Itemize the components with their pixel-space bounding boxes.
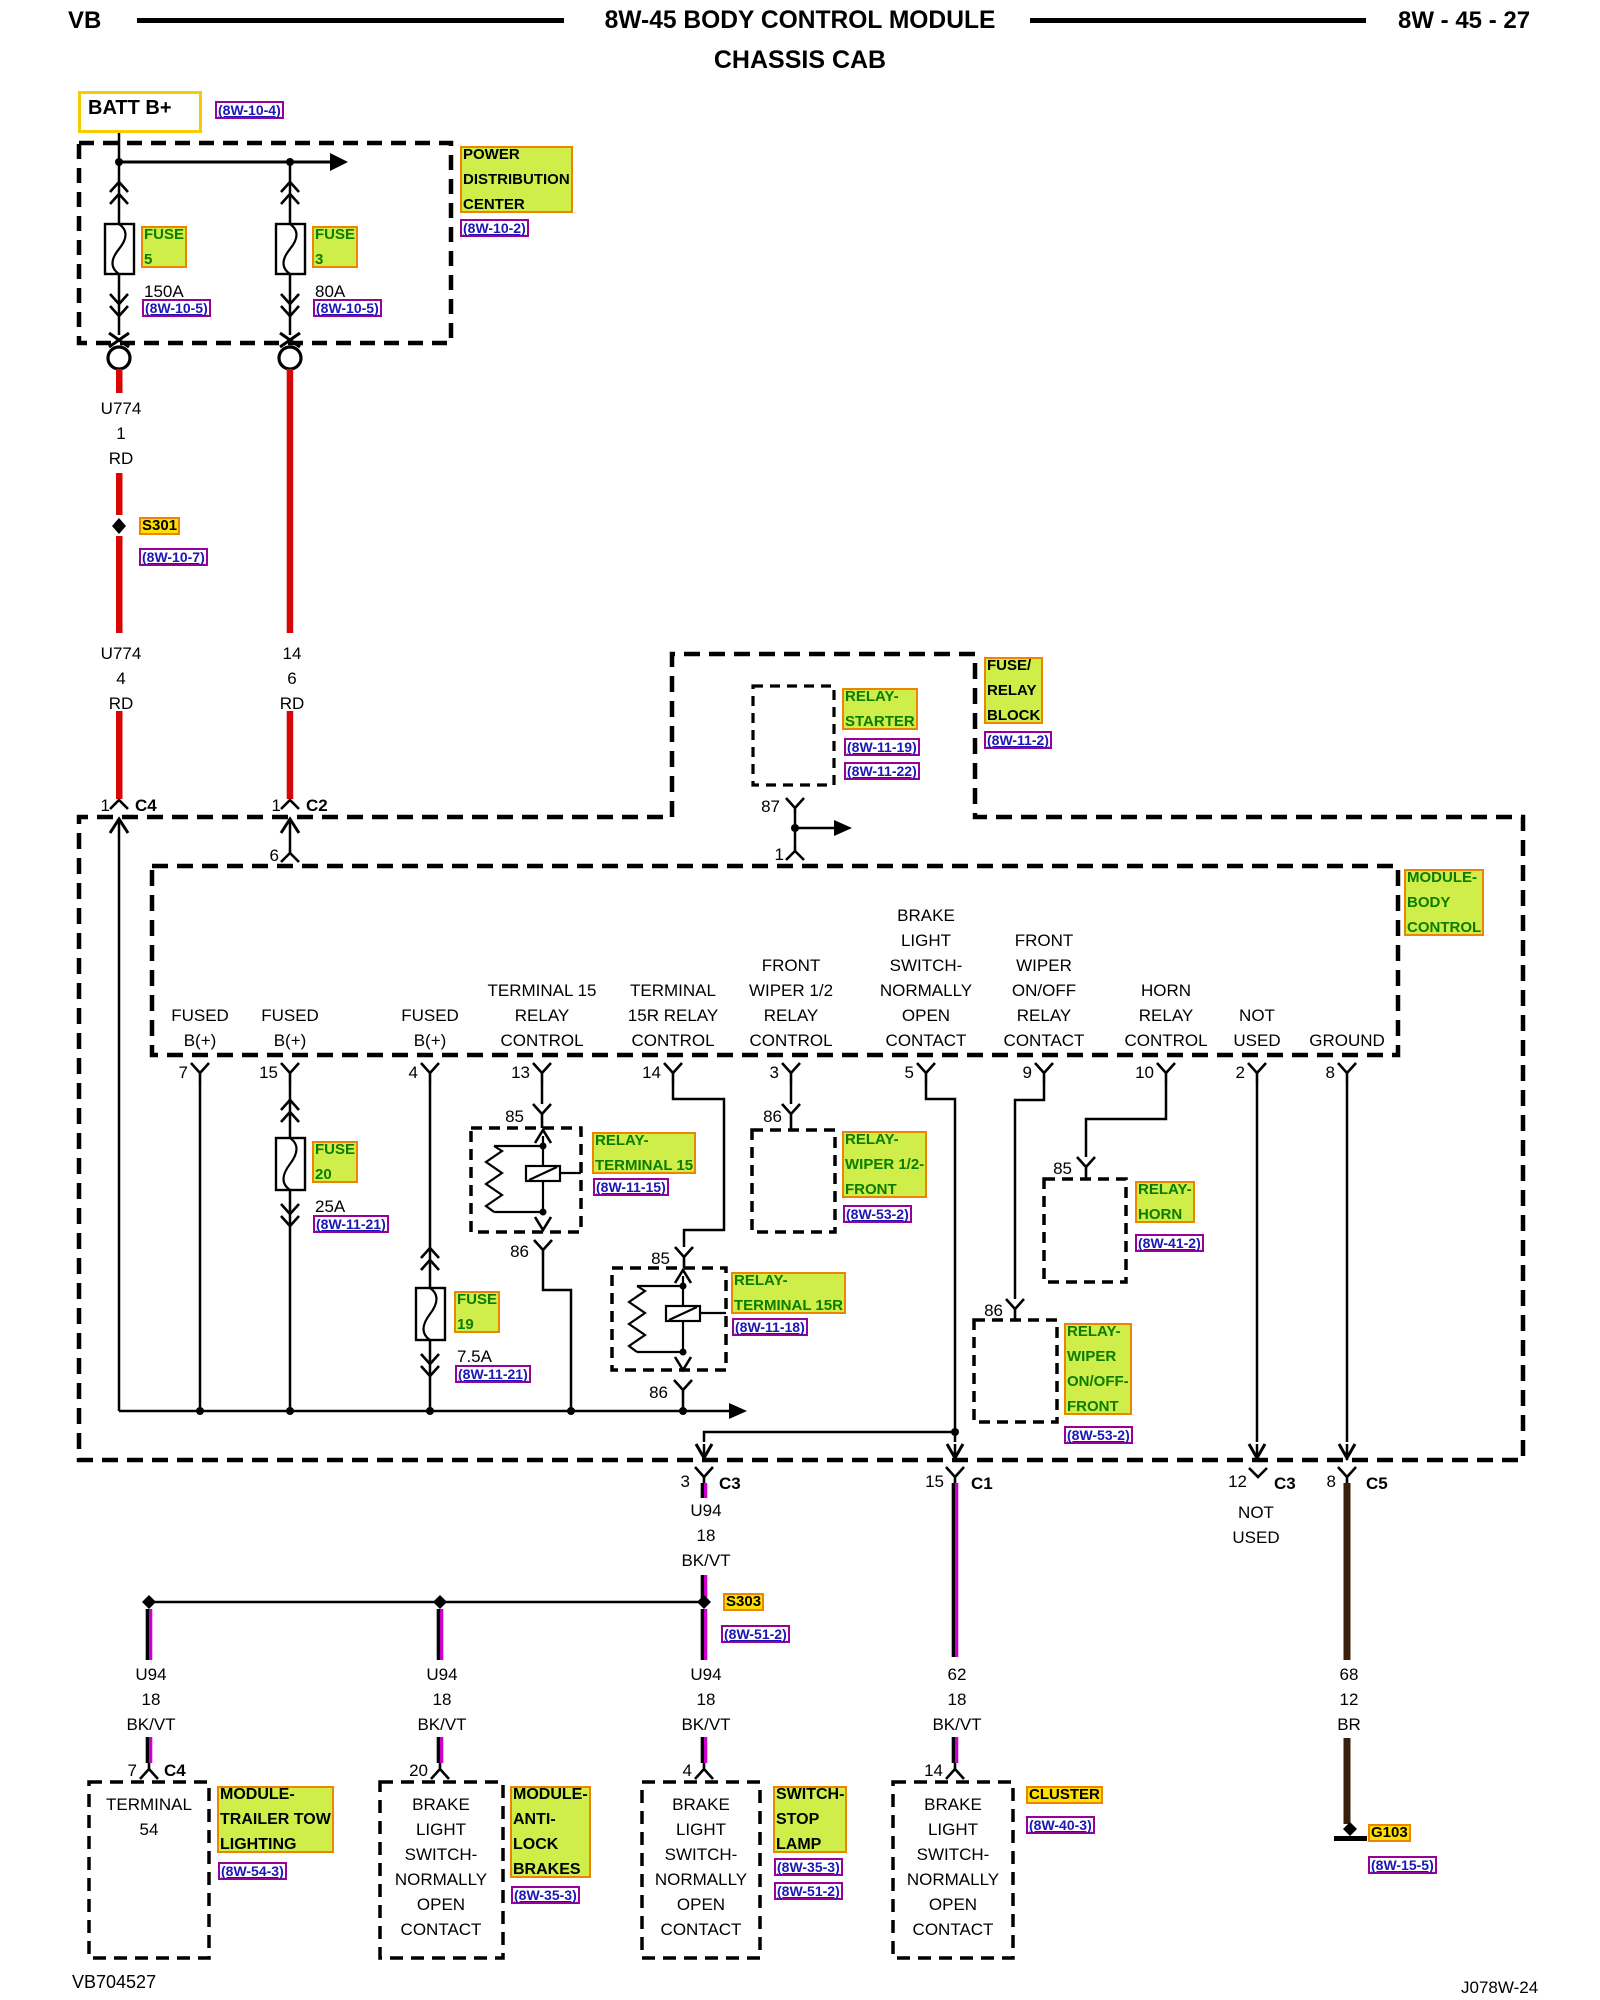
wire C4 down arrow [110, 819, 128, 1411]
pin 1 label starter [775, 846, 784, 863]
link 8W-11-21 fuse19 [455, 1365, 531, 1383]
wire U94 drop mid upper [437, 1609, 444, 1660]
link 8W-15-5 [1368, 1856, 1437, 1874]
pin 7 fork [191, 1063, 209, 1085]
connector chevrons above fuse 5 [110, 182, 128, 204]
connector chevrons below fuse 5 [110, 294, 128, 316]
wire U774 1 RD segment b [116, 473, 123, 515]
column header fused b+ 3 [401, 1003, 459, 1053]
label G103 [1368, 1824, 1411, 1842]
wire U94 drop right upper [701, 1609, 708, 1660]
column header fused b+ 2 [261, 1003, 319, 1053]
pin 87 label [761, 798, 780, 815]
link 8W-54-3 [218, 1862, 287, 1880]
pin number 7 [179, 1064, 188, 1081]
label module-trailer tow lighting [217, 1786, 334, 1853]
connector chevrons above fuse 20 [281, 1100, 299, 1122]
label module-body control [1404, 869, 1484, 936]
fuse 19 rating [457, 1348, 492, 1365]
label power distribution center [460, 146, 573, 213]
link 8W-11-18 [732, 1318, 808, 1336]
connector C1 fork [946, 1467, 964, 1483]
relay T15R 85 label [651, 1250, 670, 1267]
wire label 62 18 BKVT [948, 1666, 967, 1683]
label relay-terminal 15 [592, 1132, 696, 1174]
relay T15R junction dots [680, 1283, 687, 1356]
connector C2 pin 1 fork [281, 800, 299, 809]
splice diamond left [142, 1595, 156, 1609]
wire U774 4 RD segment a [116, 536, 123, 633]
relay T15 86 label [510, 1243, 529, 1260]
wire U774 4 RD segment b [116, 711, 123, 799]
wire relay T15R 86 to bus [682, 1395, 685, 1411]
label cluster [1026, 1786, 1103, 1804]
connector chevrons below fuse 3 [281, 294, 299, 316]
bus junction dots [196, 1407, 687, 1415]
link 8W-11-21 fuse20 [313, 1215, 389, 1233]
node junction at fuse5 feed [115, 158, 123, 166]
pin 13 fork [533, 1063, 551, 1085]
pin 14 label bottom [924, 1762, 943, 1779]
pin number 4 [409, 1064, 418, 1081]
pin 6 label [270, 847, 279, 864]
brake light switch text 3 [907, 1792, 999, 1942]
pin 4 fork bottom [695, 1763, 713, 1779]
brake light switch ABS dashed box [380, 1782, 503, 1958]
label relay-wiper on/off-front [1064, 1323, 1132, 1415]
splice S303 rail [149, 1601, 704, 1604]
link 8W-35-3 abs [511, 1886, 580, 1904]
header title [605, 12, 996, 29]
wire U94 drop left lower [146, 1737, 153, 1763]
link 8W-41-2 [1135, 1234, 1204, 1252]
connector C2 label top [272, 797, 281, 814]
wire U94 C3 to splice [701, 1575, 708, 1602]
header subtitle [714, 52, 886, 69]
relay T15 85 label [505, 1108, 524, 1125]
column header front wiper 1/2 relay control [749, 953, 833, 1053]
connector chevrons above fuse 19 [421, 1248, 439, 1270]
wire label U774 4 RD [101, 645, 142, 662]
label fuse/relay block [984, 657, 1043, 724]
pin number 14 [642, 1064, 661, 1081]
link 8W-11-2 [984, 731, 1052, 749]
connector C3 not used label [1228, 1473, 1247, 1490]
wire label U94 18 BKVT below C3 [690, 1502, 721, 1519]
wire pin14 to relay T15R [673, 1085, 724, 1247]
eyelet circle left [108, 347, 130, 369]
wire C2 down arrow [281, 819, 299, 848]
wire U94 drop right lower [701, 1737, 708, 1763]
link 8W-10-2 [460, 219, 529, 237]
link 8W-53-2 onoff [1064, 1426, 1133, 1444]
header VB [68, 12, 101, 29]
label S303 [723, 1593, 764, 1611]
wire PDC feed horizontal with arrow [119, 153, 348, 171]
PDC exit terminal X right [280, 333, 300, 347]
node starter junction [791, 824, 799, 832]
wire below fuse19 to bus [429, 1340, 432, 1411]
label fuse 19 [454, 1291, 500, 1333]
wire pin4 to fuse19 [429, 1085, 432, 1288]
label fuse 20 [312, 1141, 358, 1183]
connector C4 label top [101, 797, 110, 814]
pin number 2 [1236, 1064, 1245, 1081]
connector C5 label [1327, 1473, 1336, 1490]
fuse 3 rating 80A [315, 283, 345, 300]
relay wiper12 pin 86 fork [782, 1104, 800, 1130]
link 8W-35-3 stop [774, 1858, 843, 1876]
label relay-terminal 15r [731, 1272, 846, 1314]
relay T15 junction dots [540, 1143, 547, 1216]
wire 14 6 RD segment b [287, 711, 294, 799]
power distribution center dashed box [79, 143, 451, 343]
wire pin15 to fuse20 [289, 1085, 292, 1138]
label module-anti-lock brakes [510, 1786, 591, 1878]
column header terminal 15r relay control [628, 978, 718, 1053]
wire pin3 down [790, 1085, 793, 1104]
pin 20 fork bottom [431, 1763, 449, 1779]
header page number [1398, 12, 1530, 29]
wire 62 lower segment [952, 1737, 959, 1763]
relay T15 coil circuit [486, 1130, 581, 1230]
link 8W-40-3 [1026, 1816, 1095, 1834]
connector chevrons above fuse 3 [281, 182, 299, 204]
wire pin5 to C1 [926, 1085, 963, 1460]
relay-wiper on/off front dashed box [974, 1320, 1057, 1422]
label switch-stop lamp [773, 1786, 847, 1853]
link 8W-11-15 [593, 1178, 669, 1196]
label relay-wiper 1/2-front [842, 1131, 927, 1198]
wire 14 6 RD segment a [287, 369, 294, 633]
relay-wiper 1/2 front dashed box [752, 1130, 835, 1232]
relay T15R 86 label [649, 1384, 668, 1401]
outer BCM dashed box with fuse/relay block notch [79, 654, 1523, 1460]
connector chevrons below fuse 19 [421, 1354, 439, 1376]
wire below fuse20 to bus [289, 1190, 292, 1411]
relay horn pin 85 fork [1077, 1157, 1095, 1179]
pin 6 fork into module [281, 848, 299, 862]
column header terminal 15 relay control [488, 978, 597, 1053]
relay-starter dashed box [753, 686, 834, 785]
wire fuse3 branch top [289, 162, 292, 224]
column header brake light switch [880, 903, 972, 1053]
wire pin8 to C5 [1339, 1085, 1355, 1460]
relay T15 pin 86 fork [534, 1240, 552, 1255]
label fuse 5 [141, 226, 187, 268]
link 8W-10-5 right [313, 299, 382, 317]
PDC exit terminal X left [109, 333, 129, 347]
splice S301 diamond [112, 518, 126, 534]
connector C1 label [925, 1473, 944, 1490]
label relay-starter [842, 688, 918, 730]
pin 14 fork bottom [946, 1763, 964, 1779]
not used text [1232, 1500, 1279, 1550]
relay T15 pin 85 fork [533, 1104, 551, 1128]
wire pin13 down [541, 1085, 544, 1104]
wire U774 1 RD segment a [116, 369, 123, 393]
pin 14 fork [664, 1063, 682, 1085]
relay-terminal 15 dashed box [471, 1128, 581, 1232]
pin number 3 [770, 1064, 779, 1081]
pin 7 C4 fork bottom [140, 1763, 158, 1779]
relay wiper onoff pin 86 fork [1006, 1299, 1024, 1320]
link 8W-10-5 left [142, 299, 211, 317]
wire label U94 mid [426, 1666, 457, 1683]
fuse F20 symbol [276, 1138, 305, 1190]
pin 7 C4 labels [128, 1762, 137, 1779]
pin 20 label [409, 1762, 428, 1779]
column header horn relay control [1124, 978, 1207, 1053]
wire relay T15 86 to bus [543, 1255, 571, 1411]
wire label 68 12 BR [1340, 1666, 1359, 1683]
module trailer tow dashed box [89, 1782, 209, 1958]
link 8W-10-4 [215, 101, 284, 119]
relay-starter pin 1 fork [786, 846, 804, 860]
relay-horn dashed box [1044, 1179, 1126, 1282]
wire starter 87 down [794, 813, 797, 846]
pin number 10 [1135, 1064, 1154, 1081]
label relay-horn [1135, 1181, 1195, 1223]
relay horn 85 label [1053, 1160, 1072, 1177]
connector C3 not-used chevron [1249, 1468, 1267, 1477]
wire below fuse 5 [118, 274, 121, 335]
pin 3 fork [782, 1063, 800, 1085]
wire pin2 to C3 not used [1249, 1085, 1265, 1460]
batt b+ box [78, 91, 202, 133]
brake light switch text 2 [655, 1792, 747, 1942]
column header ground [1309, 1028, 1385, 1053]
title rule left [137, 18, 564, 23]
wire U94 drop mid lower [437, 1737, 444, 1763]
fuse F3 symbol [276, 224, 305, 274]
link 8W-10-7 [139, 548, 208, 566]
connector C5 fork [1338, 1467, 1356, 1483]
relay-starter pin 87 fork [786, 798, 804, 813]
link 8W-51-2 stop [774, 1882, 843, 1900]
node C1 branch junction [951, 1428, 959, 1436]
connector C4 pin 1 fork [110, 800, 128, 809]
fuse 20 rating [315, 1198, 345, 1215]
pin 9 fork [1035, 1063, 1053, 1085]
pin number 9 [1023, 1064, 1032, 1081]
pin 4 fork [421, 1063, 439, 1085]
pin 4 label bottom [683, 1762, 692, 1779]
wire pin10 to relay horn [1086, 1085, 1166, 1157]
relay T15R coil circuit [629, 1270, 726, 1370]
connector C3 label [681, 1473, 690, 1490]
wire 62 18 BKVT below C1 [952, 1483, 959, 1657]
wire U94 below C3 [701, 1483, 708, 1498]
brake light switch cluster dashed box [893, 1782, 1013, 1958]
label S301 [139, 517, 180, 535]
brake light switch stop lamp dashed box [642, 1782, 760, 1958]
fuse F19 symbol [416, 1288, 445, 1340]
wire label 14 6 RD [283, 645, 302, 662]
wire label U774 1 RD [101, 400, 142, 417]
relay wiper onoff 86 label [984, 1302, 1003, 1319]
relay-terminal 15R dashed box [612, 1268, 726, 1370]
wire U94 drop left upper [146, 1609, 153, 1660]
fuse F5 symbol [105, 224, 134, 274]
wire branch to C3 [696, 1432, 955, 1460]
wire pin9 to relay wiper onoff [1015, 1085, 1044, 1299]
wire label U94 left [135, 1666, 166, 1683]
connector chevrons below fuse 20 [281, 1204, 299, 1226]
link 8W-11-19 [844, 738, 920, 756]
pin number 5 [905, 1064, 914, 1081]
pin 15 fork [281, 1063, 299, 1085]
eyelet circle right [279, 347, 301, 369]
wire 68 12 BR lower segment [1344, 1738, 1351, 1824]
bus wire with arrow [119, 1403, 747, 1419]
fuse 5 rating 150A [144, 283, 184, 300]
link 8W-11-22 [844, 762, 920, 780]
wire below fuse 3 [289, 274, 292, 335]
connector C3 fork [695, 1467, 713, 1483]
relay T15R pin 85 fork [675, 1247, 693, 1268]
pin 2 fork [1248, 1063, 1266, 1085]
column header fused b+ 1 [171, 1003, 229, 1053]
relay wiper12 86 label [763, 1108, 782, 1125]
pin 10 fork [1157, 1063, 1175, 1085]
column header not used [1233, 1003, 1280, 1053]
pin number 8 [1326, 1064, 1335, 1081]
module-body control inner dashed box [152, 866, 1398, 1055]
wire starter branch arrow right [795, 820, 852, 836]
wire pin7 to bus [199, 1085, 202, 1411]
pin number 13 [511, 1064, 530, 1081]
wire label U94 right [690, 1666, 721, 1683]
node junction at fuse3 feed [286, 158, 294, 166]
pin number 15 [259, 1064, 278, 1081]
pin 5 fork [917, 1063, 935, 1085]
wire 68 12 BR below C5 [1344, 1483, 1351, 1660]
label fuse 3 [312, 226, 358, 268]
link 8W-53-2 wiper12 [843, 1205, 912, 1223]
footer right J078W-24 [1461, 1979, 1538, 1996]
title rule right [1030, 18, 1366, 23]
terminal 54 text [106, 1792, 192, 1842]
splice diamond mid [433, 1595, 447, 1609]
pin 8 fork [1338, 1063, 1356, 1085]
relay T15R pin 86 fork [674, 1380, 692, 1395]
footer left VB704527 [72, 1974, 156, 1991]
column header front wiper on/off relay contact [1004, 928, 1085, 1053]
splice diamond right [697, 1595, 711, 1609]
link 8W-51-2 s303 [721, 1625, 790, 1643]
brake light switch text 1 [395, 1792, 487, 1942]
ground G103 symbol [1334, 1822, 1367, 1841]
wire BATT B+ to PDC [118, 133, 121, 224]
